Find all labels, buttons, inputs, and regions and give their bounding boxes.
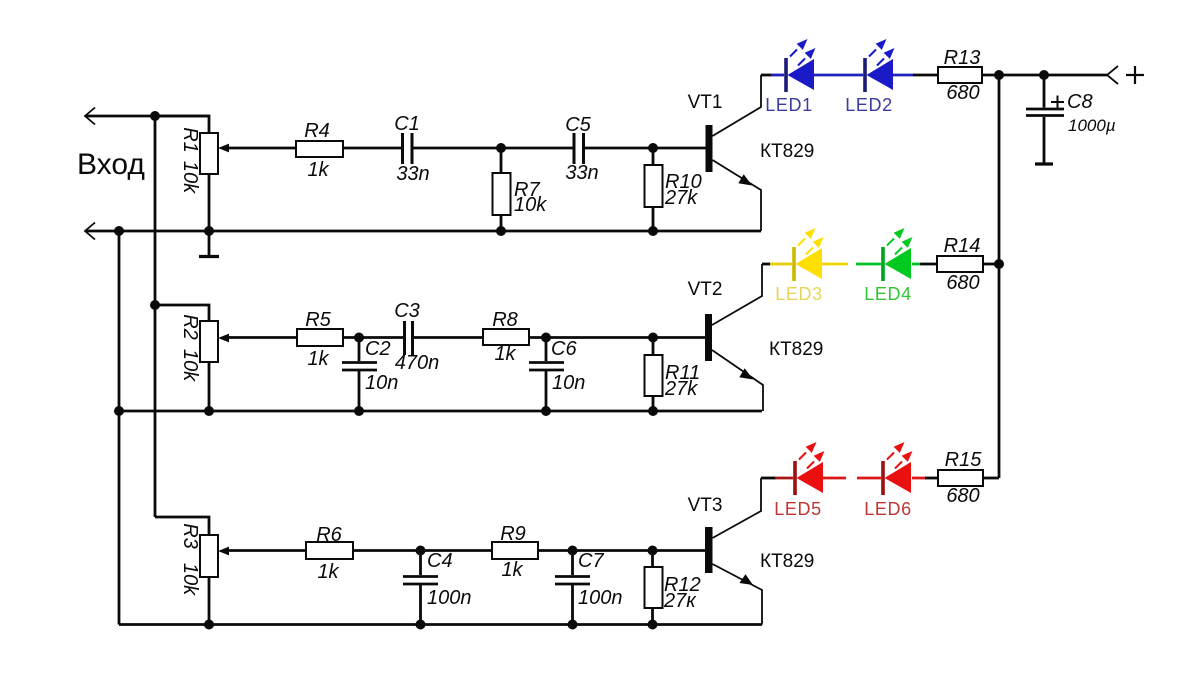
node VT2 base junction R11 top <box>648 333 658 343</box>
svg-text:R5: R5 <box>305 309 331 331</box>
node R3 bottom junction <box>204 620 214 630</box>
wire C6 bottom lead <box>545 371 548 411</box>
wire ground bus vertical <box>118 231 121 625</box>
wire input1 to node <box>86 115 209 118</box>
resistor R7 <box>493 173 511 215</box>
svg-text:27k: 27k <box>664 187 698 209</box>
wire LED4 anode lead <box>856 263 881 266</box>
wire C4 top lead <box>419 551 422 576</box>
wire R6 to node E <box>353 549 492 552</box>
resistor R11 <box>645 355 663 396</box>
wire C5 to node B <box>585 147 707 150</box>
wire LED2 to R13 <box>913 74 938 77</box>
node VT3 base junction R12 top <box>648 546 658 556</box>
svg-text:VT2: VT2 <box>688 279 723 300</box>
node C7 bottom junction <box>568 620 578 630</box>
wire R9 to node F <box>538 549 706 552</box>
wire R1 top lead <box>155 116 209 133</box>
wire R13 to supply terminal <box>982 74 1107 77</box>
node R11 bottom junction <box>648 406 658 416</box>
node F junction C7 top <box>568 546 578 556</box>
potentiometer R1 <box>200 133 229 174</box>
node C6 bottom junction <box>541 406 551 416</box>
wire C2 top lead <box>358 338 361 362</box>
svg-text:КТ829: КТ829 <box>769 339 823 360</box>
wire LED6 to R15 <box>925 477 938 480</box>
transistor VT2 <box>705 264 763 411</box>
svg-text:C3: C3 <box>394 300 420 322</box>
wire R1 bottom lead <box>208 174 211 231</box>
wire node A to C5 <box>501 147 573 150</box>
node ground rail start junction <box>114 226 124 236</box>
wire R8 to node D <box>529 336 706 339</box>
wire R5 to node C <box>343 336 403 339</box>
resistor R15 <box>938 470 983 486</box>
svg-text:680: 680 <box>946 485 979 507</box>
transistor VT1 <box>706 75 762 231</box>
svg-text:LED6: LED6 <box>864 499 911 519</box>
svg-text:LED5: LED5 <box>774 499 821 519</box>
node R12 bottom junction <box>648 620 658 630</box>
power terminal plus <box>1107 66 1118 84</box>
wire LED1 to LED2 <box>814 74 863 77</box>
wire C8 top lead <box>1043 75 1046 108</box>
svg-text:680: 680 <box>946 272 979 294</box>
svg-text:LED3: LED3 <box>775 284 822 304</box>
resistor R10 <box>645 165 663 207</box>
wire ground rail channel 3 <box>119 623 762 626</box>
LED LED1 <box>784 39 815 92</box>
svg-text:10k: 10k <box>179 563 201 596</box>
svg-text:КТ829: КТ829 <box>760 141 814 162</box>
svg-text:1k: 1k <box>501 559 523 581</box>
node C2 bottom junction <box>354 406 364 416</box>
wire R3 wiper to R6 <box>228 549 306 552</box>
svg-text:10n: 10n <box>552 372 585 394</box>
wire signal bus vertical <box>154 116 157 517</box>
svg-text:27к: 27к <box>663 590 697 612</box>
capacitor C2 <box>342 363 377 371</box>
resistor R4 <box>296 141 343 157</box>
node supply rail junction <box>994 70 1004 80</box>
wire R7 bottom lead <box>500 215 503 231</box>
node ground bus channel2 junction <box>114 406 124 416</box>
wire R10 bottom lead <box>652 207 655 231</box>
svg-text:1k: 1k <box>307 348 329 370</box>
input terminal 2 <box>85 223 95 240</box>
svg-text:33n: 33n <box>396 163 429 185</box>
wire LED4 to R14 <box>920 263 937 266</box>
capacitor C3 <box>405 321 413 355</box>
svg-text:470n: 470n <box>395 352 440 374</box>
svg-text:680: 680 <box>946 82 979 104</box>
LED LED4 <box>881 228 912 281</box>
wire R2 top lead <box>155 305 209 321</box>
resistor R12 <box>645 567 663 608</box>
wire ground rail channel 1 <box>86 230 761 233</box>
node input1 junction <box>150 111 160 121</box>
wire VT2 collector to LED3 <box>762 263 771 266</box>
wire C2 bottom lead <box>358 371 361 411</box>
svg-text:1k: 1k <box>494 343 516 365</box>
resistor R14 <box>937 256 983 272</box>
svg-text:10n: 10n <box>365 372 398 394</box>
potentiometer R2 <box>200 321 229 362</box>
svg-text:R13: R13 <box>944 47 981 69</box>
wire LED3 cathode lead <box>822 263 848 266</box>
svg-text:C5: C5 <box>565 114 591 136</box>
wire R12 top lead <box>651 551 654 568</box>
wire C6 top lead <box>545 338 548 362</box>
wire R1 wiper to R4 <box>228 147 296 150</box>
resistor R13 <box>938 67 982 83</box>
wire R7 top lead <box>500 148 503 173</box>
node C junction C2 top <box>354 333 364 343</box>
wire VT3 collector to LED5 <box>761 477 776 480</box>
wire C7 bottom lead <box>571 585 574 625</box>
wire R2 wiper to R5 <box>228 336 297 339</box>
LED LED2 <box>863 39 894 92</box>
wire R4 to C1 <box>343 147 401 150</box>
node A junction R7 top <box>496 143 506 153</box>
capacitor C4 <box>403 577 438 585</box>
node B junction R10 top / VT1 base <box>648 143 658 153</box>
wire LED6 anode lead <box>857 477 881 480</box>
node R2 bottom junction <box>204 406 214 416</box>
node C8 top junction <box>1039 70 1049 80</box>
capacitor C8 <box>1026 109 1064 116</box>
wire LED5 anode lead <box>775 477 793 480</box>
wire C4 bottom lead <box>419 585 422 625</box>
svg-text:LED1: LED1 <box>765 95 812 115</box>
capacitor C6 <box>529 363 564 371</box>
svg-text:VT3: VT3 <box>688 495 723 516</box>
wire C7 top lead <box>571 551 574 576</box>
svg-text:C2: C2 <box>365 338 391 360</box>
wire LED6 cathode lead <box>912 477 926 480</box>
svg-text:10k: 10k <box>179 349 201 382</box>
svg-text:1k: 1k <box>307 159 329 181</box>
node R7 bottom junction <box>496 226 506 236</box>
svg-text:C4: C4 <box>427 550 453 572</box>
wire VT1 collector to LED1 <box>761 74 772 77</box>
capacitor C7 <box>555 577 590 585</box>
svg-text:10k: 10k <box>179 161 201 194</box>
wire R3 top lead <box>155 517 209 535</box>
wire R11 bottom lead <box>652 396 655 411</box>
resistor R8 <box>483 329 529 345</box>
wire supply rail vertical <box>998 75 1001 478</box>
wire C3 to R8 <box>414 336 484 339</box>
wire R15 to supply rail <box>983 477 999 480</box>
wire R14 to supply rail <box>983 263 999 266</box>
wire LED3 anode lead <box>770 263 792 266</box>
svg-text:R9: R9 <box>500 523 526 545</box>
svg-text:1k: 1k <box>317 561 339 583</box>
svg-text:Вход: Вход <box>77 148 145 181</box>
resistor R5 <box>297 329 343 346</box>
node C4 bottom junction <box>416 620 426 630</box>
potentiometer R3 <box>200 535 229 577</box>
svg-text:100n: 100n <box>427 587 472 609</box>
svg-text:C8: C8 <box>1067 91 1093 113</box>
svg-text:100n: 100n <box>578 587 623 609</box>
capacitor C1 <box>403 133 413 164</box>
svg-text:C1: C1 <box>394 113 420 135</box>
ground <box>199 231 219 257</box>
svg-text:R15: R15 <box>945 449 983 471</box>
label C8 polarity plus <box>1051 96 1064 109</box>
label plus sign <box>1126 66 1144 84</box>
wire C1 to node A <box>413 147 501 150</box>
wire LED1 anode lead <box>771 74 784 77</box>
ground C8 <box>1035 162 1053 165</box>
wire R10 top lead <box>652 148 655 165</box>
LED LED6 <box>881 442 912 495</box>
transistor VT3 <box>705 478 762 625</box>
svg-text:C7: C7 <box>578 550 604 572</box>
wire LED2 to R13 blue part <box>893 74 914 77</box>
node D junction C6 top <box>541 333 551 343</box>
LED LED3 <box>792 228 823 281</box>
wire R11 top lead <box>652 338 655 356</box>
svg-text:27k: 27k <box>664 378 698 400</box>
resistor R6 <box>306 542 353 559</box>
node R1 bottom junction <box>204 226 214 236</box>
LED LED5 <box>793 442 824 495</box>
node E junction C4 top <box>416 546 426 556</box>
resistor R9 <box>492 542 538 559</box>
capacitor C5 <box>574 133 584 164</box>
svg-text:R2: R2 <box>179 314 201 340</box>
svg-text:LED4: LED4 <box>864 284 911 304</box>
wire C8 bottom lead <box>1043 117 1046 163</box>
node R10 bottom junction <box>648 226 658 236</box>
node R14 supply junction <box>994 259 1004 269</box>
wire LED5 cathode lead <box>823 477 846 480</box>
svg-text:R14: R14 <box>944 235 981 257</box>
wire LED4 cathode lead <box>912 263 921 266</box>
svg-text:33n: 33n <box>565 162 598 184</box>
wire ground rail channel 2 <box>119 410 762 413</box>
svg-text:C6: C6 <box>551 338 577 360</box>
svg-text:10k: 10k <box>514 194 547 216</box>
svg-text:1000µ: 1000µ <box>1068 116 1116 135</box>
svg-text:R1: R1 <box>179 127 201 153</box>
svg-text:LED2: LED2 <box>845 95 892 115</box>
svg-text:VT1: VT1 <box>688 92 723 113</box>
svg-text:R6: R6 <box>316 524 342 546</box>
svg-text:R4: R4 <box>304 120 330 142</box>
svg-text:КТ829: КТ829 <box>760 551 814 572</box>
svg-text:R8: R8 <box>492 309 518 331</box>
node channel2 signal tap junction <box>150 300 160 310</box>
wire R2 bottom lead <box>208 362 211 411</box>
svg-text:R3: R3 <box>179 523 201 549</box>
input terminal 1 <box>85 108 95 125</box>
wire R12 bottom lead <box>651 608 654 625</box>
wire R3 bottom lead <box>208 577 211 625</box>
